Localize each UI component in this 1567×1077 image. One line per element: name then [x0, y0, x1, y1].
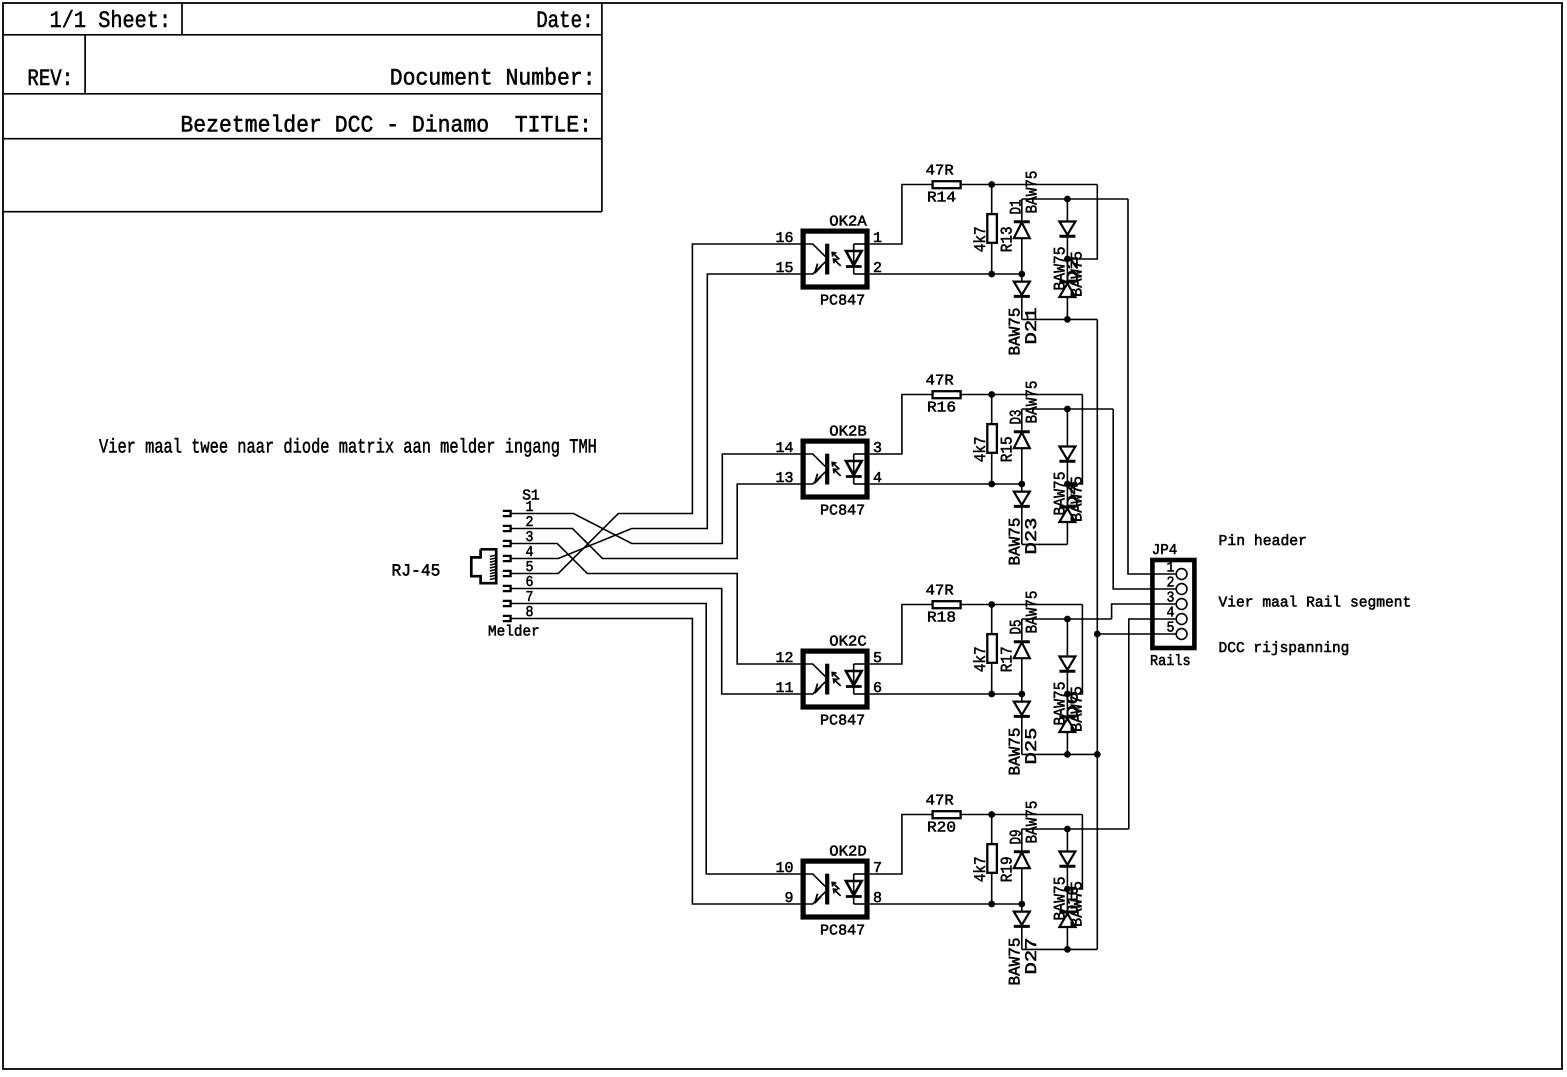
svg-text:5: 5 — [1167, 620, 1175, 637]
svg-text:R18: R18 — [927, 610, 956, 627]
svg-text:Pin header: Pin header — [1219, 533, 1308, 550]
wire OK2A pin 1 to resistor R14 — [870, 185, 932, 245]
resistor R19 4k7 — [991, 815, 993, 845]
wire common bus to JP4 pin5 — [1097, 633, 1176, 635]
S1 pin 2 — [503, 526, 511, 531]
wire S1 pin5 to OK2A pin16 — [511, 244, 801, 574]
junction R19/rail node — [988, 901, 995, 908]
junction rail/D9 node — [1018, 901, 1025, 908]
bus cell C top row to JP4 pin3 — [1112, 604, 1177, 619]
resistor R18 47R — [933, 601, 961, 608]
svg-text:RJ-45: RJ-45 — [392, 563, 441, 582]
svg-text:DCC rijspanning: DCC rijspanning — [1219, 640, 1350, 657]
wire rail OK2C pin 6 — [870, 693, 1022, 695]
diode pair right column bottom (BAW75) — [1066, 259, 1068, 282]
svg-text:BAW75: BAW75 — [1024, 381, 1042, 424]
diode pair right column bottom (BAW75) — [1066, 694, 1068, 717]
junction diode pair middle node — [1064, 256, 1071, 263]
OK2A LED — [853, 244, 855, 274]
OK2C phototransistor — [825, 664, 829, 695]
svg-text:4k7: 4k7 — [972, 646, 990, 672]
optocoupler OK2C (PC847) box — [803, 651, 867, 707]
svg-text:R16: R16 — [927, 400, 956, 417]
wire S1 pin4 to OK2A pin15 — [511, 274, 801, 559]
svg-text:BAW75: BAW75 — [1024, 591, 1042, 634]
OK2B light arrows — [832, 463, 841, 476]
svg-text:PC847: PC847 — [820, 293, 865, 310]
svg-text:4k7: 4k7 — [972, 856, 990, 882]
svg-text:Melder: Melder — [488, 624, 540, 641]
OK2A phototransistor — [825, 244, 829, 275]
svg-text:D27: D27 — [1023, 938, 1041, 975]
diode pair right column top (BAW75) — [1066, 409, 1068, 447]
junction top row node — [1064, 826, 1071, 833]
svg-text:15: 15 — [775, 260, 793, 277]
jog wire to diode pair middle — [1067, 185, 1097, 260]
junction top row node — [1064, 406, 1071, 413]
svg-text:1/1 Sheet:: 1/1 Sheet: — [50, 8, 172, 35]
OK2A light arrows — [832, 253, 841, 266]
optocoupler OK2A (PC847) box — [803, 231, 867, 287]
svg-text:10: 10 — [775, 860, 793, 877]
svg-text:16: 16 — [775, 230, 793, 247]
OK2C light arrows — [832, 673, 841, 686]
wire S1 pin6 to OK2C pin11 — [511, 589, 801, 695]
svg-text:PC847: PC847 — [820, 923, 865, 940]
junction node R18/R17 — [988, 601, 995, 608]
junction diode pair middle node — [1064, 481, 1071, 488]
svg-text:BAW75: BAW75 — [1007, 728, 1025, 776]
wire top row — [1022, 828, 1129, 830]
svg-text:14: 14 — [775, 440, 793, 457]
resistor R13 4k7 — [991, 185, 993, 215]
resistor R20 47R — [933, 811, 961, 818]
svg-text:BAW75: BAW75 — [1024, 171, 1042, 214]
diode D25 BAW75 — [1021, 694, 1023, 702]
svg-text:12: 12 — [775, 650, 793, 667]
JP4 pin 2 — [1176, 584, 1187, 595]
svg-text:13: 13 — [775, 470, 793, 487]
svg-text:11: 11 — [775, 680, 793, 697]
diode D5 BAW75 — [1021, 619, 1023, 640]
S1 pin 4 — [503, 556, 511, 561]
wire OK2C pin 5 to resistor R18 — [870, 605, 932, 665]
junction bottom row node — [1064, 946, 1071, 953]
resistor R16 47R — [933, 391, 961, 398]
svg-text:D4: D4 — [1065, 481, 1083, 509]
junction top row node — [1064, 196, 1071, 203]
wire bottom row — [1022, 948, 1098, 950]
S1 pin 5 — [503, 571, 511, 576]
S1 pin 3 — [503, 541, 511, 546]
OK2C LED — [853, 664, 855, 694]
diode pair right column top (BAW75) — [1066, 199, 1068, 222]
svg-text:D10: D10 — [1065, 886, 1083, 914]
svg-text:47R: 47R — [926, 163, 954, 180]
junction diode pair middle node — [1064, 886, 1071, 893]
wire bottom row — [1022, 543, 1068, 545]
svg-text:D25: D25 — [1023, 728, 1041, 765]
svg-text:OK2D: OK2D — [829, 844, 866, 861]
svg-text:REV:: REV: — [27, 66, 73, 93]
JP4 pin 3 — [1176, 599, 1187, 610]
wire S1 pin2 to OK2B pin13 — [511, 484, 801, 559]
OK2D phototransistor — [825, 874, 829, 905]
wire S1 pin8 to OK2D pin9 — [511, 619, 801, 905]
OK2D light arrows — [832, 883, 841, 896]
svg-text:Rails: Rails — [1150, 653, 1191, 670]
bus cell B top row to JP4 pin2 — [1113, 409, 1176, 589]
junction R17/rail node — [988, 691, 995, 698]
diode D27 BAW75 — [1021, 904, 1023, 912]
svg-text:BAW75: BAW75 — [1007, 518, 1025, 566]
svg-text:OK2A: OK2A — [829, 214, 866, 231]
JP4 pin 5 — [1176, 629, 1187, 640]
svg-text:R20: R20 — [927, 820, 956, 837]
jog wire to diode pair middle — [1067, 605, 1082, 695]
wire R20 to 4k7 node — [962, 814, 1083, 816]
svg-text:47R: 47R — [926, 583, 954, 600]
wire rail OK2B pin 4 — [870, 483, 1022, 485]
svg-text:PC847: PC847 — [820, 713, 865, 730]
diode pair right column top (BAW75) — [1066, 619, 1068, 657]
bus cell A top row to JP4 pin1 — [1128, 199, 1176, 574]
junction R15/rail node — [988, 481, 995, 488]
JP4 pin 1 — [1176, 569, 1187, 580]
S1 pin 8 — [503, 616, 511, 621]
junction node R20/R19 — [988, 811, 995, 818]
junction node R14/R13 — [988, 181, 995, 188]
svg-text:Date:: Date: — [536, 8, 593, 35]
jog wire to diode pair middle — [1067, 815, 1082, 890]
junction common bus/JP4 pin5 node — [1094, 631, 1101, 638]
svg-text:JP4: JP4 — [1152, 542, 1178, 559]
junction bottom row/common bus node — [1094, 751, 1101, 758]
svg-text:D21: D21 — [1023, 308, 1041, 345]
junction R13/rail node — [988, 271, 995, 278]
OK2B phototransistor — [825, 454, 829, 485]
diode D1 BAW75 — [1021, 199, 1023, 220]
title block frame — [3, 34, 602, 36]
junction top row node — [1064, 616, 1071, 623]
svg-text:47R: 47R — [926, 373, 954, 390]
bus cell D top row to JP4 pin4 — [1129, 619, 1176, 829]
svg-text:Vier maal twee naar diode matr: Vier maal twee naar diode matrix aan mel… — [99, 436, 597, 459]
junction rail/D1 node — [1018, 271, 1025, 278]
wire rail OK2D pin 8 — [870, 903, 1022, 905]
junction bottom row node — [1064, 316, 1071, 323]
wire S1 pin1 to OK2B pin14 — [511, 454, 801, 544]
wire top row — [1022, 198, 1128, 200]
optocoupler OK2D (PC847) box — [803, 861, 867, 917]
svg-text:4k7: 4k7 — [972, 436, 990, 462]
common bus to JP4 pin5 — [1096, 319, 1098, 949]
connector S1 RJ-45 jack body — [471, 549, 496, 583]
wire top row — [1022, 408, 1113, 410]
svg-text:OK2B: OK2B — [829, 424, 866, 441]
diode pair right column top (BAW75) — [1066, 829, 1068, 852]
resistor R17 4k7 — [991, 605, 993, 635]
svg-text:D6: D6 — [1065, 691, 1083, 719]
svg-text:BAW75: BAW75 — [1024, 801, 1042, 844]
svg-text:D2: D2 — [1065, 256, 1083, 284]
wire R18 to 4k7 node — [962, 604, 1083, 606]
OK2D LED — [853, 874, 855, 904]
svg-text:PC847: PC847 — [820, 503, 865, 520]
wire OK2D pin 7 to resistor R20 — [870, 815, 932, 875]
svg-text:BAW75: BAW75 — [1007, 938, 1025, 986]
S1 pin 7 — [503, 601, 511, 606]
svg-text:47R: 47R — [926, 793, 954, 810]
svg-text:R14: R14 — [927, 190, 956, 207]
diode D9 BAW75 — [1021, 829, 1023, 850]
wire R14 to 4k7 node — [962, 184, 1098, 186]
svg-text:4k7: 4k7 — [972, 226, 990, 252]
diode D3 BAW75 — [1021, 409, 1023, 430]
svg-text:OK2C: OK2C — [829, 634, 866, 651]
S1 pin 6 — [503, 586, 511, 591]
diode D23 BAW75 — [1021, 484, 1023, 492]
svg-text:Bezetmelder DCC - Dinamo TITL: Bezetmelder DCC - Dinamo TITLE: — [180, 113, 592, 140]
wire S1 pin7 to OK2D pin10 — [511, 604, 801, 875]
junction diode pair middle node — [1064, 691, 1071, 698]
wire rail OK2A pin 2 — [870, 273, 1022, 275]
svg-text:Vier maal Rail segment: Vier maal Rail segment — [1219, 595, 1412, 612]
junction node R16/R15 — [988, 391, 995, 398]
wire top row — [1022, 618, 1112, 620]
svg-text:BAW75: BAW75 — [1007, 308, 1025, 356]
junction rail/D3 node — [1018, 481, 1025, 488]
junction rail/D5 node — [1018, 691, 1025, 698]
junction bottom row node — [1064, 751, 1071, 758]
wire bottom row — [1022, 318, 1098, 320]
diode D21 BAW75 — [1021, 274, 1023, 282]
JP4 pin 4 — [1176, 614, 1187, 625]
resistor R14 47R — [933, 181, 961, 188]
wire bottom row — [1022, 753, 1098, 755]
wire R16 to 4k7 node — [962, 394, 1083, 396]
OK2B LED — [853, 454, 855, 484]
svg-text:Document Number:: Document Number: — [390, 66, 596, 93]
connector JP4 box — [1152, 560, 1194, 648]
resistor R15 4k7 — [991, 395, 993, 425]
svg-text:D23: D23 — [1023, 518, 1041, 555]
RJ-45 jack contacts comb — [490, 555, 495, 579]
svg-text:9: 9 — [784, 890, 793, 907]
wire OK2B pin 3 to resistor R16 — [870, 395, 932, 455]
wire S1 pin3 to OK2C pin12 — [511, 544, 801, 665]
jog wire to diode pair middle — [1067, 395, 1082, 485]
S1 pin 1 — [503, 511, 511, 516]
diode pair right column bottom (BAW75) — [1066, 484, 1068, 507]
diode pair right column bottom (BAW75) — [1066, 889, 1068, 912]
optocoupler OK2B (PC847) box — [803, 441, 867, 497]
